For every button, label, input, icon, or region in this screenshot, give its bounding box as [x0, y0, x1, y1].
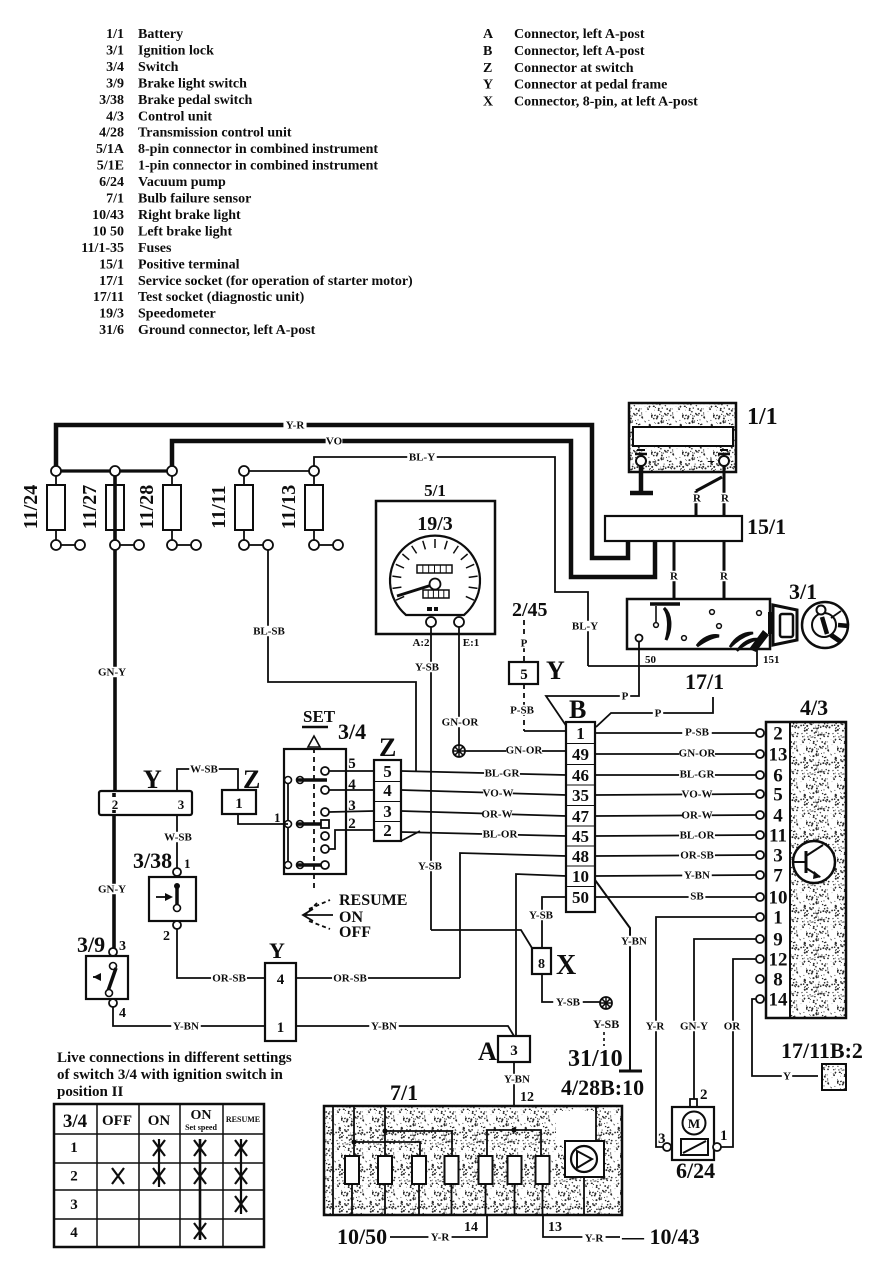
svg-text:Y-SB: Y-SB	[415, 662, 440, 674]
svg-text:X: X	[483, 95, 493, 110]
svg-text:Y: Y	[783, 1071, 791, 1083]
svg-text:OR-W: OR-W	[481, 809, 512, 821]
svg-text:1: 1	[235, 796, 243, 812]
svg-text:Connector, left A-post: Connector, left A-post	[514, 27, 645, 42]
svg-text:7/1: 7/1	[390, 1080, 418, 1105]
svg-text:5: 5	[348, 756, 356, 772]
svg-text:OFF: OFF	[102, 1113, 132, 1129]
svg-text:Y-BN: Y-BN	[371, 1021, 397, 1033]
svg-text:11/24: 11/24	[20, 485, 42, 529]
svg-text:position II: position II	[57, 1084, 123, 1100]
svg-text:35: 35	[572, 786, 589, 805]
svg-text:Y-SB: Y-SB	[418, 861, 443, 873]
svg-text:50: 50	[645, 654, 657, 666]
svg-text:Y-R: Y-R	[286, 420, 306, 432]
svg-text:3: 3	[178, 797, 185, 812]
svg-text:3/38: 3/38	[133, 848, 172, 873]
svg-text:9: 9	[773, 930, 783, 951]
svg-text:VO-W: VO-W	[483, 788, 514, 800]
svg-text:Set speed: Set speed	[185, 1123, 217, 1132]
svg-text:31/6: 31/6	[99, 323, 124, 338]
svg-text:Y-SB: Y-SB	[593, 1017, 619, 1031]
svg-text:OR-SB: OR-SB	[680, 850, 714, 862]
svg-text:Bulb failure sensor: Bulb failure sensor	[138, 192, 251, 207]
svg-text:13: 13	[769, 745, 788, 766]
svg-text:49: 49	[572, 745, 589, 764]
svg-text:4: 4	[773, 806, 783, 827]
svg-text:Y-R: Y-R	[646, 1021, 666, 1033]
svg-text:A: A	[483, 27, 494, 42]
svg-text:Y-SB: Y-SB	[529, 910, 554, 922]
svg-text:1: 1	[277, 1020, 285, 1036]
svg-text:BL-OR: BL-OR	[680, 830, 716, 842]
svg-text:10/50: 10/50	[337, 1224, 387, 1249]
svg-text:GN-Y: GN-Y	[680, 1021, 708, 1033]
svg-text:Service socket (for operation: Service socket (for operation of starter…	[138, 274, 413, 289]
svg-text:SB: SB	[690, 891, 704, 903]
svg-text:Z: Z	[483, 61, 492, 76]
svg-text:31/10: 31/10	[568, 1046, 623, 1072]
svg-text:R: R	[720, 571, 729, 583]
svg-text:Control unit: Control unit	[138, 109, 212, 124]
svg-text:10/43: 10/43	[92, 208, 124, 223]
svg-text:6/24: 6/24	[676, 1158, 715, 1183]
svg-text:Connector at pedal frame: Connector at pedal frame	[514, 78, 667, 93]
svg-text:3: 3	[70, 1197, 78, 1213]
svg-text:2: 2	[383, 821, 392, 840]
svg-text:Y: Y	[269, 938, 285, 963]
svg-text:Speedometer: Speedometer	[138, 307, 216, 322]
svg-text:11: 11	[769, 826, 787, 847]
svg-text:1: 1	[720, 1128, 728, 1144]
svg-text:Ignition lock: Ignition lock	[138, 43, 214, 58]
svg-text:14: 14	[769, 990, 789, 1011]
svg-text:3/4: 3/4	[63, 1111, 88, 1132]
svg-text:1: 1	[773, 908, 783, 929]
svg-text:P-SB: P-SB	[685, 727, 710, 739]
svg-text:+: +	[707, 455, 715, 470]
svg-text:W-SB: W-SB	[190, 764, 218, 776]
svg-text:Battery: Battery	[138, 27, 183, 42]
svg-text:3/38: 3/38	[99, 93, 124, 108]
svg-text:— 10/43: — 10/43	[621, 1224, 700, 1249]
svg-text:5/1: 5/1	[424, 481, 446, 500]
svg-text:1: 1	[70, 1140, 78, 1156]
svg-text:GN-Y: GN-Y	[98, 667, 126, 679]
svg-text:M: M	[688, 1116, 700, 1131]
svg-text:Live connections in different: Live connections in different settings	[57, 1050, 292, 1066]
svg-text:10: 10	[572, 867, 589, 886]
svg-text:Y-R: Y-R	[585, 1233, 605, 1245]
svg-text:19/3: 19/3	[417, 513, 453, 535]
svg-text:Connector at switch: Connector at switch	[514, 61, 634, 76]
svg-text:P-SB: P-SB	[510, 705, 535, 717]
svg-text:4/3: 4/3	[800, 695, 828, 720]
svg-text:Test socket (diagnostic unit): Test socket (diagnostic unit)	[138, 290, 305, 305]
svg-text:4: 4	[383, 781, 392, 800]
svg-text:OR-W: OR-W	[681, 810, 712, 822]
svg-text:50: 50	[572, 888, 589, 907]
svg-text:1/1: 1/1	[106, 27, 124, 42]
svg-text:GN-OR: GN-OR	[679, 748, 717, 760]
svg-text:11/11: 11/11	[208, 485, 230, 528]
svg-text:3: 3	[119, 939, 126, 954]
svg-text:A: A	[478, 1037, 497, 1066]
svg-text:Switch: Switch	[138, 60, 179, 75]
svg-text:4: 4	[348, 777, 356, 793]
svg-text:8: 8	[773, 970, 783, 991]
svg-text:10 50: 10 50	[93, 224, 125, 239]
svg-text:P: P	[622, 691, 629, 703]
svg-text:5: 5	[383, 762, 392, 781]
svg-text:VO-W: VO-W	[682, 789, 713, 801]
svg-text:4: 4	[277, 972, 285, 988]
svg-text:R: R	[693, 493, 702, 505]
svg-text:Y: Y	[546, 656, 565, 685]
svg-text:17/11B:2: 17/11B:2	[781, 1038, 863, 1063]
svg-text:3: 3	[383, 802, 392, 821]
svg-text:ON: ON	[148, 1113, 171, 1129]
svg-text:2: 2	[70, 1168, 78, 1184]
svg-text:11/27: 11/27	[79, 485, 101, 529]
svg-text:BL-GR: BL-GR	[680, 769, 716, 781]
svg-text:3/4: 3/4	[106, 60, 124, 75]
svg-text:SET: SET	[303, 707, 336, 726]
svg-text:BL-Y: BL-Y	[409, 452, 435, 464]
svg-text:4: 4	[119, 1006, 126, 1021]
svg-text:X: X	[556, 950, 576, 981]
svg-text:Positive terminal: Positive terminal	[138, 257, 240, 272]
svg-text:Brake light switch: Brake light switch	[138, 76, 247, 91]
svg-text:Y-BN: Y-BN	[504, 1074, 530, 1086]
svg-text:Y-SB: Y-SB	[556, 997, 581, 1009]
svg-text:GN-OR: GN-OR	[506, 745, 544, 757]
svg-text:3: 3	[658, 1131, 666, 1147]
svg-text:2: 2	[112, 797, 119, 812]
svg-text:Y: Y	[143, 765, 162, 794]
svg-text:R: R	[721, 493, 730, 505]
svg-text:11/1-35: 11/1-35	[81, 241, 124, 256]
svg-text:BL-OR: BL-OR	[483, 829, 519, 841]
svg-text:Connector, 8-pin, at left A-po: Connector, 8-pin, at left A-post	[514, 95, 698, 110]
svg-text:Y-BN: Y-BN	[173, 1021, 199, 1033]
svg-text:2/45: 2/45	[512, 599, 548, 621]
svg-text:46: 46	[572, 766, 589, 785]
svg-text:15/1: 15/1	[99, 257, 124, 272]
svg-text:3/1: 3/1	[106, 43, 124, 58]
svg-text:of switch 3/4 with ignition sw: of switch 3/4 with ignition switch in	[57, 1067, 284, 1083]
svg-text:11/28: 11/28	[136, 485, 158, 529]
svg-text:1-pin connector in combined in: 1-pin connector in combined instrument	[138, 159, 378, 174]
svg-text:OFF: OFF	[339, 924, 371, 941]
svg-text:17/1: 17/1	[99, 274, 124, 289]
svg-text:2: 2	[773, 724, 783, 745]
svg-text:R: R	[670, 571, 679, 583]
svg-text:BL-SB: BL-SB	[253, 626, 285, 638]
svg-text:1/1: 1/1	[747, 404, 778, 430]
svg-text:13: 13	[548, 1220, 562, 1235]
svg-text:Y-BN: Y-BN	[621, 936, 647, 948]
svg-text:3/4: 3/4	[338, 719, 366, 744]
svg-text:5: 5	[773, 785, 783, 806]
svg-text:W-SB: W-SB	[164, 832, 192, 844]
svg-text:10: 10	[769, 888, 788, 909]
svg-text:11/13: 11/13	[278, 485, 300, 529]
svg-text:Y-R: Y-R	[431, 1232, 451, 1244]
svg-text:Left brake light: Left brake light	[138, 224, 232, 239]
svg-text:Vacuum pump: Vacuum pump	[138, 175, 226, 190]
svg-text:Ground connector, left A-post: Ground connector, left A-post	[138, 323, 316, 338]
svg-text:7/1: 7/1	[106, 192, 124, 207]
svg-text:Brake pedal switch: Brake pedal switch	[138, 93, 253, 108]
svg-text:3/9: 3/9	[106, 76, 124, 91]
svg-text:15/1: 15/1	[747, 514, 786, 539]
svg-text:P: P	[521, 638, 528, 650]
svg-text:4: 4	[70, 1225, 78, 1241]
svg-text:B: B	[569, 695, 586, 724]
svg-text:Z: Z	[379, 733, 396, 762]
svg-text:151: 151	[763, 654, 780, 666]
svg-text:-: -	[652, 454, 657, 469]
svg-text:12: 12	[769, 950, 788, 971]
svg-text:4/28B:10: 4/28B:10	[561, 1075, 644, 1100]
svg-text:1: 1	[576, 724, 585, 743]
svg-text:12: 12	[520, 1090, 534, 1105]
svg-text:OR-SB: OR-SB	[333, 973, 367, 985]
svg-text:3: 3	[510, 1043, 518, 1059]
svg-text:8-pin connector in combined in: 8-pin connector in combined instrument	[138, 142, 378, 157]
svg-text:3: 3	[773, 846, 783, 867]
svg-text:8: 8	[538, 957, 545, 972]
svg-text:OR-SB: OR-SB	[212, 973, 246, 985]
svg-text:E:1: E:1	[463, 637, 480, 649]
svg-text:17/1: 17/1	[685, 669, 724, 694]
svg-text:5: 5	[520, 667, 528, 683]
svg-text:A:2: A:2	[412, 637, 430, 649]
svg-text:4/28: 4/28	[99, 126, 124, 141]
svg-text:GN-OR: GN-OR	[442, 717, 480, 729]
svg-text:OR: OR	[724, 1021, 742, 1033]
svg-text:3/1: 3/1	[789, 579, 817, 604]
svg-text:Connector, left A-post: Connector, left A-post	[514, 44, 645, 59]
svg-text:7: 7	[773, 866, 783, 887]
svg-text:P: P	[655, 708, 662, 720]
svg-text:5/1E: 5/1E	[97, 159, 124, 174]
svg-text:VO: VO	[326, 436, 343, 448]
svg-text:RESUME: RESUME	[226, 1115, 260, 1124]
svg-text:4/3: 4/3	[106, 109, 124, 124]
svg-text:2: 2	[163, 929, 170, 944]
svg-text:45: 45	[572, 827, 589, 846]
svg-text:Right brake light: Right brake light	[138, 208, 241, 223]
svg-text:1: 1	[184, 856, 191, 871]
svg-text:Transmission control unit: Transmission control unit	[138, 126, 292, 141]
svg-text:3/9: 3/9	[77, 932, 105, 957]
svg-text:Fuses: Fuses	[138, 241, 172, 256]
svg-text:BL-Y: BL-Y	[572, 621, 598, 633]
svg-text:GN-Y: GN-Y	[98, 884, 126, 896]
svg-text:17/11: 17/11	[93, 290, 124, 305]
svg-text:Y-BN: Y-BN	[684, 870, 710, 882]
svg-text:47: 47	[572, 807, 590, 826]
svg-text:3: 3	[348, 798, 356, 814]
svg-text:5/1A: 5/1A	[96, 142, 125, 157]
svg-text:B: B	[483, 44, 492, 59]
svg-text:BL-GR: BL-GR	[485, 768, 521, 780]
svg-text:19/3: 19/3	[99, 307, 124, 322]
svg-text:Y: Y	[483, 78, 493, 93]
svg-text:ON: ON	[191, 1108, 212, 1123]
svg-text:1: 1	[274, 810, 281, 825]
svg-text:6: 6	[773, 766, 783, 787]
svg-text:2: 2	[700, 1087, 708, 1103]
svg-text:RESUME: RESUME	[339, 892, 407, 909]
svg-text:14: 14	[464, 1220, 478, 1235]
svg-text:48: 48	[572, 847, 589, 866]
svg-text:2: 2	[348, 816, 356, 832]
svg-text:6/24: 6/24	[99, 175, 124, 190]
